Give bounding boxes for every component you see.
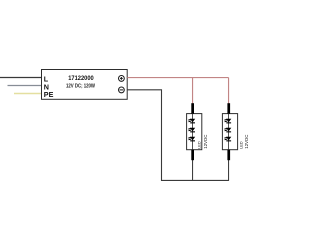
- LED D1 of LP1: [188, 119, 195, 124]
- LP1 cathode terminal pin: [191, 150, 194, 161]
- svg-text:17122000: 17122000: [68, 75, 94, 82]
- wire LP2 cathode drop: [228, 158, 230, 181]
- LP2 anode terminal pin: [227, 103, 230, 114]
- svg-text:12VDC: 12VDC: [203, 135, 208, 149]
- svg-text:12V DC; 120W: 12V DC; 120W: [66, 83, 95, 89]
- LP2 body: [222, 114, 237, 150]
- wire 0V return from terminal -: [127, 90, 228, 181]
- wire +12V bus (red) from terminal +: [127, 77, 228, 79]
- terminal + of U1: [119, 76, 125, 82]
- LED D3 of LP2: [224, 137, 231, 142]
- power supply U1 (LED driver) body: [42, 70, 128, 100]
- LED D2 of LP1: [188, 128, 195, 133]
- wire LP1 cathode drop: [192, 158, 194, 181]
- LP1 internal wire: [192, 114, 194, 150]
- wire N (mains neutral input): [8, 85, 42, 87]
- LED D3 of LP1: [188, 137, 195, 142]
- LED module LP1: [187, 103, 208, 160]
- LP1 anode terminal pin: [191, 103, 194, 114]
- wire red drop to LP2 anode: [228, 78, 230, 104]
- svg-text:12VDC: 12VDC: [244, 135, 249, 149]
- svg-text:PE: PE: [44, 90, 54, 99]
- LED D2 of LP2: [224, 128, 231, 133]
- wire L (mains live input): [0, 77, 42, 79]
- LP2 internal wire: [228, 114, 230, 150]
- LED D1 of LP2: [224, 119, 231, 124]
- LED module LP2: [222, 103, 249, 160]
- svg-text:LED: LED: [197, 141, 201, 149]
- svg-text:LED: LED: [239, 141, 243, 149]
- LP1 body: [187, 114, 202, 150]
- terminal - of U1: [119, 87, 125, 93]
- LP2 cathode terminal pin: [227, 150, 230, 161]
- wire red drop to LP1 anode: [192, 78, 194, 104]
- wire PE (protective earth input): [14, 93, 42, 95]
